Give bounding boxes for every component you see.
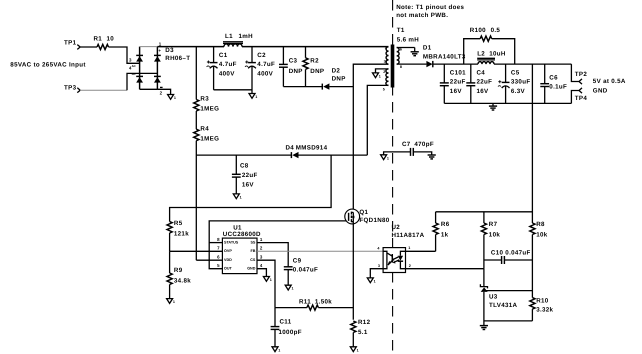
svg-text:SS: SS xyxy=(250,240,255,244)
wire OUT to gate of Q1 xyxy=(209,221,348,269)
svg-text:10: 10 xyxy=(107,36,115,43)
svg-text:1: 1 xyxy=(387,156,389,160)
svg-text:1MEG: 1MEG xyxy=(200,105,219,112)
svg-text:MMSD914: MMSD914 xyxy=(296,145,328,152)
wire bridge minus to ground xyxy=(157,89,170,94)
capacitor C11 xyxy=(271,308,302,347)
svg-text:C11: C11 xyxy=(280,319,292,326)
svg-text:10k: 10k xyxy=(536,231,548,238)
ground V1 (aux pin2) xyxy=(373,73,381,79)
node TP1 xyxy=(64,40,80,50)
svg-text:5V at 0.5A: 5V at 0.5A xyxy=(593,78,626,85)
svg-text:DNP: DNP xyxy=(332,76,346,83)
svg-text:1: 1 xyxy=(292,287,294,291)
resistor R3 xyxy=(194,47,220,113)
resistor R12 xyxy=(351,319,371,347)
resistor R100 xyxy=(464,27,515,64)
svg-text:1: 1 xyxy=(357,348,359,352)
svg-text:1: 1 xyxy=(379,74,381,78)
wire output rail xyxy=(433,63,572,65)
node TP4 xyxy=(571,88,587,104)
primary winding xyxy=(386,47,388,64)
svg-text:R9: R9 xyxy=(174,267,183,274)
svg-text:L1: L1 xyxy=(225,33,233,40)
label 5V output xyxy=(593,78,626,85)
svg-text:1: 1 xyxy=(240,195,242,199)
svg-text:R12: R12 xyxy=(358,319,371,326)
transistor U3 TLV431A xyxy=(480,269,517,326)
capacitor C6 xyxy=(540,64,567,103)
svg-text:2: 2 xyxy=(383,70,385,74)
svg-text:GND: GND xyxy=(247,267,256,271)
capacitor C9 xyxy=(284,257,318,285)
ground V1 (C8) xyxy=(233,194,241,200)
svg-text:5.6 mH: 5.6 mH xyxy=(397,37,419,44)
capacitor C5 xyxy=(498,64,530,103)
svg-text:L2: L2 xyxy=(477,51,485,58)
resistor R6 xyxy=(433,212,450,252)
wire HV rail left xyxy=(157,46,224,48)
svg-text:FQD1N80: FQD1N80 xyxy=(359,217,389,224)
wire opto pin2 to R7 xyxy=(406,268,484,270)
svg-text:C101: C101 xyxy=(450,69,466,76)
wire TP1 to R1 xyxy=(80,46,97,48)
svg-text:U2: U2 xyxy=(392,224,401,231)
label input xyxy=(10,62,85,69)
capacitor C101 xyxy=(440,64,466,103)
wire D4 to aux rail xyxy=(299,154,368,156)
svg-text:2: 2 xyxy=(409,264,411,268)
svg-text:C7: C7 xyxy=(402,141,411,148)
earth ground (C7 right) xyxy=(428,155,436,159)
wire CS run xyxy=(257,260,275,307)
core xyxy=(391,45,395,88)
svg-text:C2: C2 xyxy=(257,52,266,59)
svg-text:1: 1 xyxy=(270,278,272,282)
svg-text:C9: C9 xyxy=(293,257,302,264)
bottom bar wire xyxy=(140,88,158,90)
wire VDD vertical xyxy=(195,141,197,261)
earth ground (U3) xyxy=(480,326,488,330)
svg-text:D4: D4 xyxy=(286,145,295,152)
wire GND pin4 xyxy=(257,269,266,277)
wire 5V sense vertical xyxy=(531,64,533,223)
svg-text:GND: GND xyxy=(593,88,608,95)
svg-text:FB: FB xyxy=(250,249,255,253)
svg-text:R10: R10 xyxy=(536,297,549,304)
wire opto pin1 to R6 xyxy=(406,250,436,252)
svg-text:TP1: TP1 xyxy=(64,40,77,47)
wire secondary pin6 xyxy=(397,48,415,52)
svg-text:DNP: DNP xyxy=(310,68,324,75)
pin 2 xyxy=(160,86,163,88)
resistor R8 xyxy=(530,221,548,298)
svg-text:10k: 10k xyxy=(489,231,501,238)
capacitor C4 xyxy=(466,64,492,103)
ground V1 (C2) xyxy=(249,94,257,100)
svg-text:16V: 16V xyxy=(242,181,255,188)
capacitor C2 xyxy=(245,47,275,94)
svg-text:400V: 400V xyxy=(219,71,235,78)
label GND xyxy=(593,88,608,95)
earth ground (output) xyxy=(489,103,497,110)
wire R11 node line xyxy=(275,307,307,309)
svg-text:Note: T1 pinout does: Note: T1 pinout does xyxy=(396,4,464,11)
wire D2 to primary pin3 node xyxy=(329,86,353,88)
svg-text:T1: T1 xyxy=(397,27,405,34)
svg-text:470pF: 470pF xyxy=(414,141,434,148)
inductor L1 xyxy=(223,33,253,47)
svg-text:MBRA140LT3: MBRA140LT3 xyxy=(423,54,466,61)
svg-text:H11A817A: H11A817A xyxy=(392,232,425,239)
diode D3a xyxy=(136,54,143,56)
resistor R7 xyxy=(481,212,500,269)
svg-text:121k: 121k xyxy=(174,231,189,238)
svg-text:OVP: OVP xyxy=(224,249,232,253)
svg-text:not match PWB.: not match PWB. xyxy=(396,12,448,19)
svg-text:3.32k: 3.32k xyxy=(536,307,553,314)
resistor R1 xyxy=(94,36,115,50)
wire STATUS stub xyxy=(209,242,222,244)
svg-text:0.5: 0.5 xyxy=(491,27,501,34)
svg-text:C1: C1 xyxy=(219,52,228,59)
svg-text:R6: R6 xyxy=(441,221,450,228)
bridge rectifier D3 xyxy=(129,41,190,95)
svg-text:TP3: TP3 xyxy=(64,85,77,92)
wire opto pin3 to ground xyxy=(370,269,383,278)
svg-text:UCC28600D: UCC28600D xyxy=(223,231,261,238)
phototransistor xyxy=(383,251,387,268)
svg-text:1: 1 xyxy=(174,96,176,100)
svg-text:D1: D1 xyxy=(423,45,432,52)
transformer T1 xyxy=(383,27,419,92)
svg-text:TLV431A: TLV431A xyxy=(489,302,518,309)
svg-text:1000pF: 1000pF xyxy=(279,329,302,336)
ground V1 (C7 left) xyxy=(381,155,389,161)
ground V1 (C11) xyxy=(272,347,280,353)
svg-text:DNP: DNP xyxy=(289,68,303,75)
svg-text:4.7uF: 4.7uF xyxy=(257,61,275,68)
svg-text:U3: U3 xyxy=(489,294,498,301)
resistor R5 xyxy=(167,220,189,251)
resistor R11 xyxy=(299,299,332,311)
transistor Q1 FQD1N80 xyxy=(345,209,390,224)
wire C1 to C2 bottom xyxy=(214,89,252,91)
svg-text:85VAC to 265VAC Input: 85VAC to 265VAC Input xyxy=(10,62,85,69)
wire FB to optocoupler xyxy=(257,250,383,252)
right leg wire xyxy=(156,47,158,90)
svg-text:400V: 400V xyxy=(257,71,273,78)
svg-text:C5: C5 xyxy=(511,69,520,76)
ground V1 (R12) xyxy=(350,347,358,353)
diode D1 xyxy=(423,45,466,68)
svg-text:CS: CS xyxy=(250,258,256,262)
svg-text:+: + xyxy=(158,48,161,53)
ground V1 (bridge) xyxy=(168,95,176,101)
svg-text:22uF: 22uF xyxy=(477,79,493,86)
svg-text:1: 1 xyxy=(278,348,280,352)
node TP3 xyxy=(64,85,80,93)
wire Q1 source down xyxy=(352,222,354,320)
svg-text:330uF: 330uF xyxy=(511,79,531,86)
diode D3b xyxy=(136,75,143,77)
svg-text:1: 1 xyxy=(408,246,410,250)
wire R1 to bridge AC1 xyxy=(109,47,140,63)
svg-text:1: 1 xyxy=(255,95,257,99)
wire snubber bottom xyxy=(283,86,322,88)
inductor L2 xyxy=(477,51,506,65)
wire output bottom rail xyxy=(444,102,571,104)
capacitor C3 xyxy=(279,47,303,87)
svg-text:R4: R4 xyxy=(200,125,209,132)
wire primary pin3 xyxy=(353,64,388,212)
ground V1 (U1 GND) xyxy=(263,277,271,283)
svg-text:R8: R8 xyxy=(536,221,545,228)
secondary winding xyxy=(397,48,399,65)
svg-text:R5: R5 xyxy=(174,220,183,227)
svg-text:R7: R7 xyxy=(489,221,498,228)
wire VDD to pin6 xyxy=(196,259,222,261)
wire VDD node line xyxy=(196,154,291,156)
svg-text:Q1: Q1 xyxy=(359,209,368,216)
wire OVP pin7 run xyxy=(170,250,223,252)
svg-text:4.7uF: 4.7uF xyxy=(219,61,237,68)
wire R11 to source xyxy=(318,307,353,309)
svg-text:6: 6 xyxy=(400,48,402,52)
svg-text:22uF: 22uF xyxy=(242,172,258,179)
svg-text:5: 5 xyxy=(383,88,385,92)
wire R10 bottom to U3 anode xyxy=(484,320,533,322)
note text xyxy=(396,4,464,19)
resistor R4 xyxy=(194,111,220,142)
capacitor C1 xyxy=(207,47,237,90)
svg-text:VDD: VDD xyxy=(224,258,232,262)
capacitor C8 xyxy=(232,155,258,194)
svg-text:1MEG: 1MEG xyxy=(200,135,219,142)
diode D3d xyxy=(154,75,161,77)
op-amp U1 UCC28600D xyxy=(217,225,263,274)
diode D4 xyxy=(286,145,328,159)
LED xyxy=(400,251,405,268)
wire TP3 to bridge AC2 xyxy=(80,73,157,90)
svg-text:STATUS: STATUS xyxy=(224,240,239,244)
svg-text:10uH: 10uH xyxy=(489,51,506,58)
wire divider top line xyxy=(436,211,533,213)
wire secondary pin8 to D1 xyxy=(397,63,427,65)
resistor R9 xyxy=(167,251,191,298)
light arrows xyxy=(392,257,399,263)
svg-text:0.047uF: 0.047uF xyxy=(505,249,530,256)
svg-text:OUT: OUT xyxy=(224,267,233,271)
svg-text:0.1uF: 0.1uF xyxy=(549,84,567,91)
svg-text:0.047uF: 0.047uF xyxy=(293,267,318,274)
ground V1 (R9) xyxy=(167,299,175,305)
node TP2 xyxy=(571,64,587,84)
capacitor C7 xyxy=(384,141,434,156)
optocoupler U2 H11A817A xyxy=(377,224,424,273)
svg-text:34.8k: 34.8k xyxy=(174,277,191,284)
diode D3c xyxy=(154,54,161,56)
aux winding xyxy=(386,69,389,86)
svg-text:3: 3 xyxy=(384,59,386,63)
svg-text:22uF: 22uF xyxy=(450,79,466,86)
svg-text:RH06–T: RH06–T xyxy=(165,55,190,62)
top bar wire xyxy=(140,46,158,48)
ground V1 (opto) xyxy=(367,278,375,284)
svg-text:R3: R3 xyxy=(200,96,209,103)
ground V1 (C9) xyxy=(285,285,293,291)
earth ground (secondary) xyxy=(411,52,419,56)
svg-text:1mH: 1mH xyxy=(239,33,254,40)
svg-text:1: 1 xyxy=(374,279,376,283)
wire U3 node to R10 xyxy=(484,290,533,292)
svg-text:16V: 16V xyxy=(450,88,463,95)
svg-text:R2: R2 xyxy=(310,57,319,64)
svg-text:6.3V: 6.3V xyxy=(511,88,526,95)
svg-text:D2: D2 xyxy=(332,68,341,75)
left leg wire xyxy=(139,47,141,90)
wire SS to C9 xyxy=(257,243,288,267)
svg-text:R1: R1 xyxy=(94,36,103,43)
svg-text:C3: C3 xyxy=(289,57,298,64)
svg-text:3: 3 xyxy=(378,264,380,268)
svg-text:16V: 16V xyxy=(477,88,490,95)
diode D2 xyxy=(322,68,345,90)
resistor R10 xyxy=(530,297,554,321)
wire HV rail right xyxy=(242,46,389,48)
svg-text:R11: R11 xyxy=(299,299,311,306)
svg-text:8: 8 xyxy=(400,65,402,69)
svg-text:C4: C4 xyxy=(477,69,486,76)
svg-text:D3: D3 xyxy=(165,47,174,54)
svg-text:C10: C10 xyxy=(491,249,504,256)
svg-text:TP2: TP2 xyxy=(575,71,588,78)
svg-text:1k: 1k xyxy=(441,231,449,238)
isolation boundary dashed line xyxy=(392,0,394,354)
wire OVP sense run xyxy=(170,155,332,221)
svg-text:5.1: 5.1 xyxy=(358,329,368,336)
wire aux pin2 to ground xyxy=(376,69,389,73)
svg-text:1: 1 xyxy=(385,45,387,49)
svg-text:TP4: TP4 xyxy=(575,95,588,102)
svg-text:R100: R100 xyxy=(470,27,486,34)
svg-text:C8: C8 xyxy=(240,162,249,169)
capacitor C10 xyxy=(484,249,533,264)
resistor R2 xyxy=(303,47,324,87)
wire aux pin5 to VDD rail xyxy=(367,85,388,155)
svg-text:C6: C6 xyxy=(549,74,558,81)
svg-text:1: 1 xyxy=(173,300,175,304)
